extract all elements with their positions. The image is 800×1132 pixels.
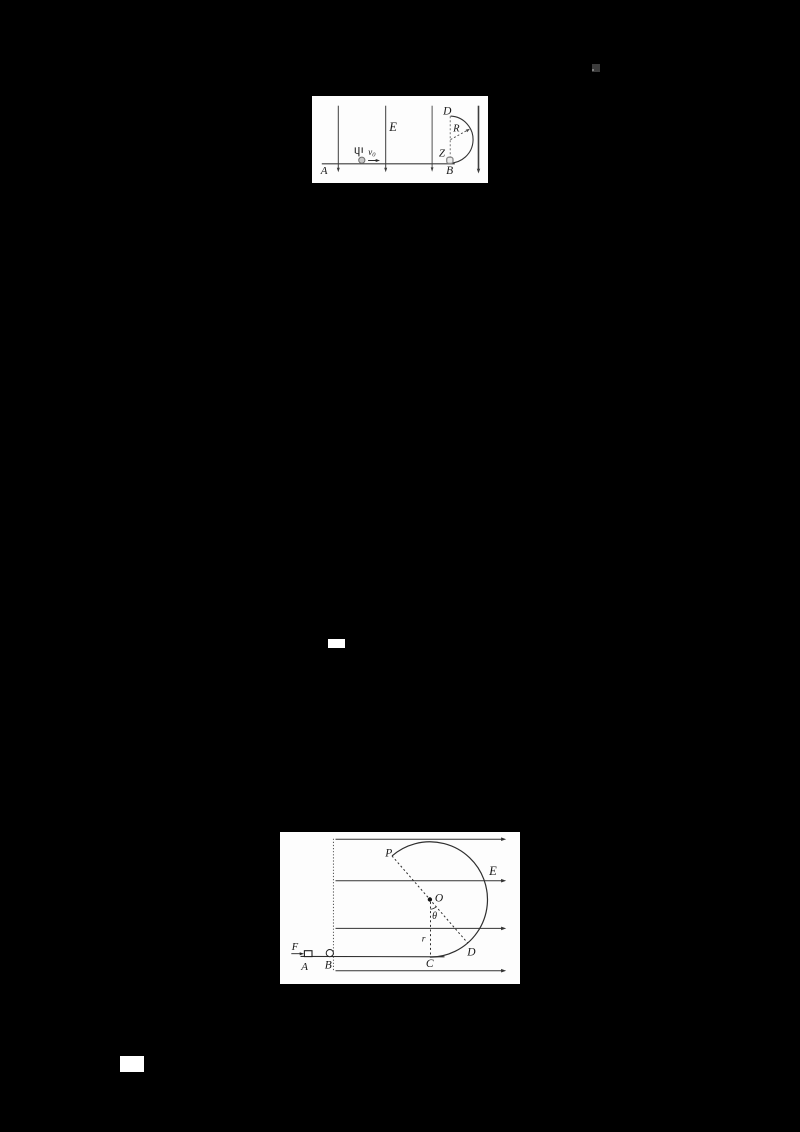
small white rectangle (mid page) [328, 639, 345, 648]
mu glyph above ball [355, 146, 362, 155]
svg-text:Z: Z [439, 147, 446, 159]
dotted vertical line through B [332, 838, 334, 970]
dashed chord DB [449, 116, 451, 157]
figure 2 panel (white box) [280, 832, 520, 985]
block at A [304, 950, 312, 956]
field arrow 1 [336, 105, 339, 171]
svg-text:B: B [324, 959, 331, 971]
field line 2 (E) [335, 878, 506, 882]
faint gray square icon top-right [592, 64, 601, 73]
ball at B [446, 157, 452, 163]
figure 1 panel (white box) [312, 96, 489, 183]
svg-text:B: B [446, 164, 453, 176]
angle arc theta [430, 906, 436, 908]
field line 4 (bottom) [335, 968, 506, 972]
field arrow 2 [384, 105, 387, 171]
field arrow 4 [476, 105, 479, 173]
semicircular track [448, 116, 473, 163]
svg-text:v0: v0 [368, 147, 376, 158]
field line 3 [335, 926, 506, 930]
svg-text:A: A [300, 961, 308, 973]
force arrow F [291, 952, 304, 955]
dashed radius arrow R [450, 128, 469, 139]
svg-text:D: D [466, 946, 476, 958]
svg-text:F: F [290, 942, 298, 953]
light mark inside gray square [592, 69, 594, 72]
svg-text:C: C [425, 957, 433, 969]
svg-text:θ: θ [432, 911, 437, 922]
small white rectangle (bottom left) [120, 1056, 144, 1073]
svg-text:D: D [442, 105, 452, 117]
velocity arrow [368, 158, 380, 161]
svg-text:E: E [488, 864, 497, 878]
svg-text:r: r [421, 934, 425, 944]
circular path (open circle) [391, 841, 486, 956]
small circle at B [326, 949, 333, 956]
center dot O [427, 897, 431, 901]
dashed diameter P-D [391, 855, 467, 942]
ground line AC [300, 955, 444, 957]
ball with v0 [358, 157, 364, 163]
ground line AB [321, 162, 454, 164]
svg-text:O: O [434, 892, 443, 904]
field line 1 [335, 837, 506, 841]
field arrow 3 [430, 105, 433, 171]
dashed radius OC (r) [429, 901, 431, 956]
svg-text:A: A [319, 164, 327, 176]
svg-text:R: R [452, 123, 460, 134]
svg-text:P: P [384, 847, 392, 859]
svg-text:E: E [388, 120, 397, 134]
